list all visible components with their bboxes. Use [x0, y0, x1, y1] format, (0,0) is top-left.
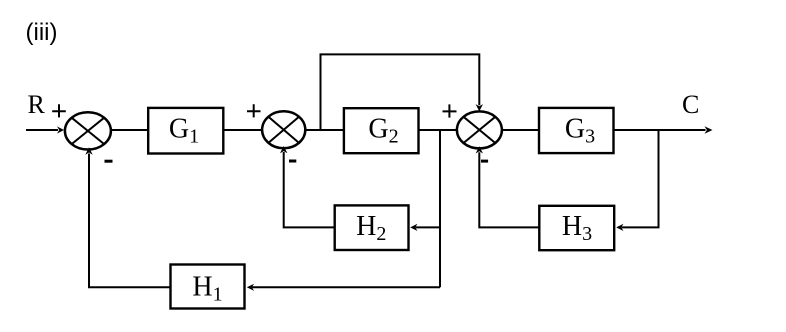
- wire: H3 output left and up into S3 bottom (arrowhead up): [476, 146, 540, 227]
- wire: S1 to G1: [111, 129, 148, 131]
- block G3: [539, 108, 614, 153]
- plus sign at S3: [443, 104, 457, 117]
- wire: feedforward from takeoff after S2 over the top into S3 (down arrowhead): [321, 54, 484, 130]
- wire: takeoff after G3 down and left into H3 (arrowhead into H3): [616, 130, 658, 231]
- wire: input R to summing junction S1 (with arrowhead): [26, 126, 64, 133]
- block H1: [171, 265, 245, 309]
- plus sign at S1: [52, 104, 66, 117]
- wire: G1 to summing junction S2: [223, 129, 261, 131]
- block H2: [335, 205, 409, 250]
- summing junction S3: [457, 111, 502, 148]
- minus sign at S2: [289, 160, 296, 163]
- summing junction S1: [65, 112, 111, 149]
- block G2: [344, 108, 419, 153]
- wire: G3 to output C (takeoff node at x=658.5, arrowhead at end): [614, 126, 713, 133]
- svg-text:C: C: [682, 90, 699, 119]
- plus sign at S2: [247, 104, 261, 117]
- wire: takeoff after G2 down to H1 level: [439, 130, 441, 287]
- wire: H1 output left and up into S1 bottom (arrowhead up): [85, 147, 170, 287]
- wire: branch into H1 (arrowhead into H1): [247, 284, 440, 291]
- wire: S2 to G2 (takeoff node at x=320.5): [305, 129, 344, 131]
- wire: S3 to G3: [502, 129, 539, 131]
- svg-text:R: R: [28, 90, 46, 119]
- summing junction S2: [262, 111, 305, 148]
- block H3: [539, 206, 614, 250]
- minus sign at S3: [481, 160, 488, 163]
- svg-text:(iii): (iii): [26, 19, 58, 46]
- wire: branch into H2 (arrowhead into H2): [410, 224, 440, 231]
- wire: H2 output left and up into S2 bottom (arrowhead up): [280, 146, 335, 227]
- block G1: [148, 108, 223, 154]
- wire: G2 to summing junction S3 (takeoff node at x=440): [419, 129, 457, 131]
- minus sign at S1: [105, 160, 113, 163]
